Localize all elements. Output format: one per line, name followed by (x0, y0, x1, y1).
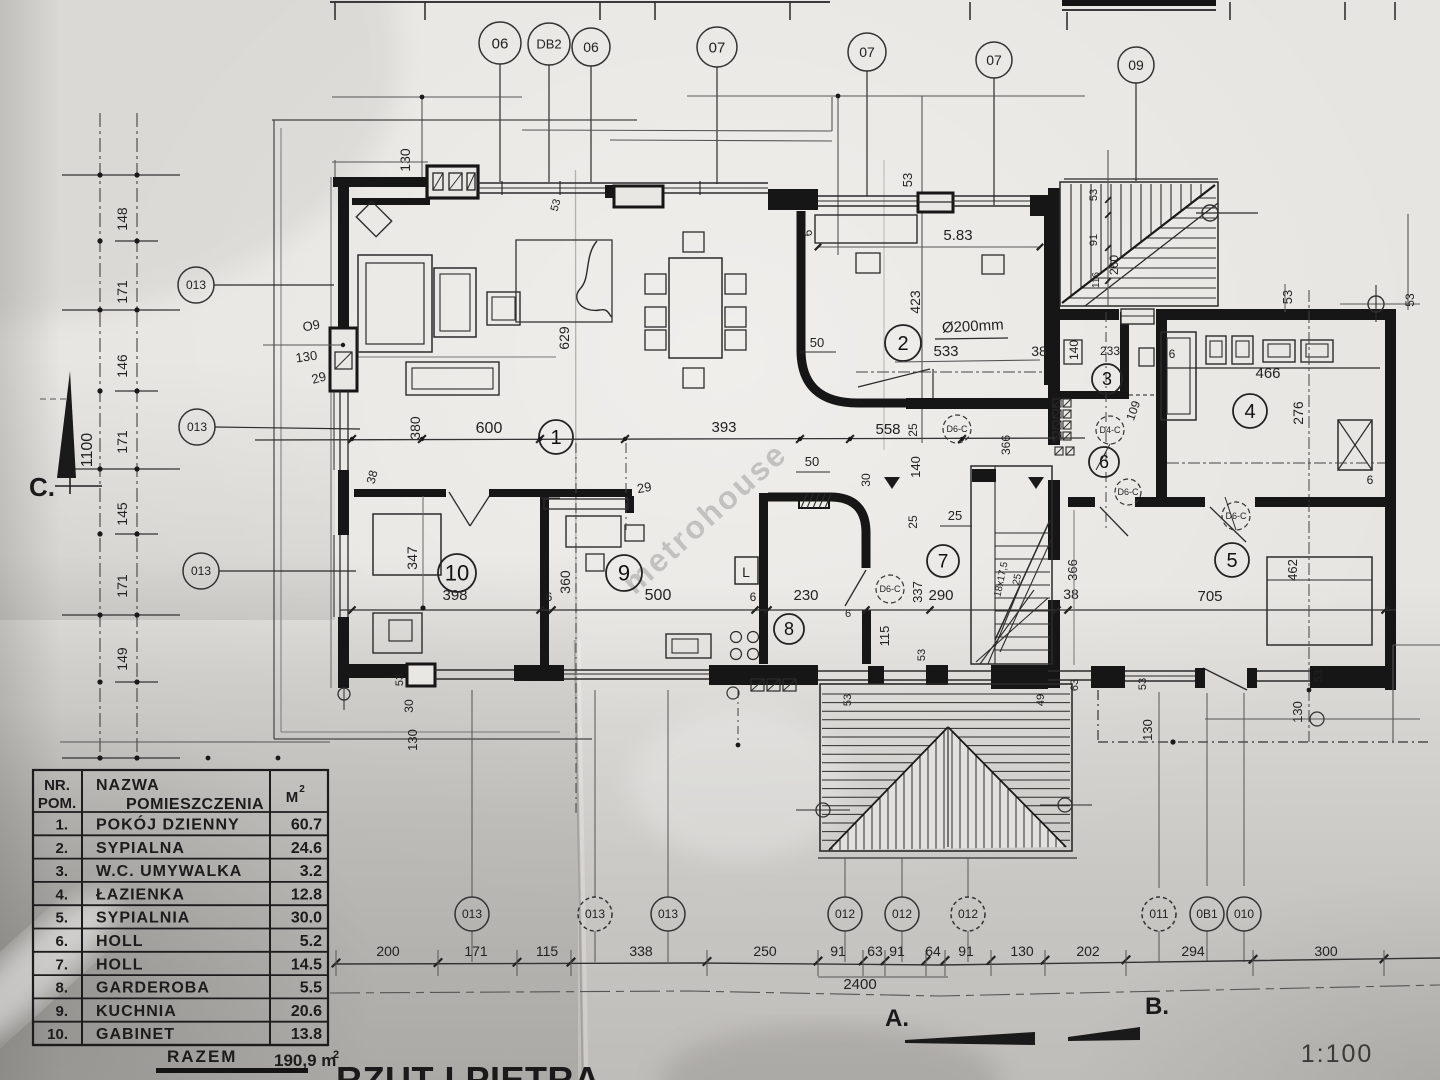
room5 door leaf 1 (1100, 507, 1128, 536)
svg-text:63: 63 (867, 943, 883, 959)
svg-text:2.: 2. (55, 840, 68, 857)
svg-text:200: 200 (376, 943, 400, 959)
reference circle 07c top (976, 42, 1012, 78)
room5 bottom wall right chunk (1310, 666, 1396, 688)
svg-text:600: 600 (476, 420, 503, 437)
table row 10. GABINET (33, 1021, 328, 1023)
room2 top center window block (918, 193, 953, 212)
reference circle 013 bottom x472 (455, 897, 489, 931)
room10 desk (373, 514, 441, 575)
svg-text:276: 276 (1290, 401, 1306, 425)
svg-text:8: 8 (784, 619, 794, 639)
svg-text:115: 115 (536, 943, 559, 959)
bottom wall chunk 2 (514, 665, 564, 681)
svg-text:25: 25 (906, 423, 920, 437)
svg-text:146: 146 (114, 354, 130, 378)
dashed circle D6-C room5 (1222, 502, 1250, 530)
terrace survey circle right (1058, 798, 1072, 812)
inner wall below top-left (352, 198, 430, 205)
svg-text:53: 53 (900, 173, 915, 187)
svg-text:91: 91 (889, 943, 905, 959)
room2 nightstand left (856, 253, 880, 273)
vertical guides below circles (471, 931, 473, 962)
svg-text:7: 7 (938, 551, 949, 572)
svg-text:RZUT I PIETRA: RZUT I PIETRA (336, 1059, 601, 1080)
room5 bottom window 1 (1125, 670, 1195, 672)
bottom wall chunk 5 (926, 665, 948, 685)
black triangle marker b (1028, 477, 1044, 489)
svg-text:558: 558 (875, 421, 900, 438)
svg-text:30: 30 (402, 699, 416, 713)
svg-text:6.: 6. (55, 933, 68, 950)
bottom wall window thin 3 (818, 670, 868, 672)
svg-text:91: 91 (830, 943, 846, 959)
room3 washbasin (1064, 340, 1082, 364)
room2 right wall (1044, 215, 1054, 385)
svg-text:010: 010 (1234, 907, 1254, 921)
svg-text:HOLL: HOLL (96, 933, 144, 950)
room circle 4 (1233, 394, 1267, 428)
svg-text:07: 07 (986, 52, 1002, 68)
door swing room10 (449, 492, 470, 526)
room8 wall below door (862, 610, 871, 664)
terrace roof vertical hatch (832, 720, 1064, 852)
svg-text:190,9 m: 190,9 m (274, 1051, 336, 1070)
svg-text:423: 423 (907, 290, 923, 314)
table row 1. POKÓJ DZIENNY (33, 811, 328, 813)
svg-text:171: 171 (114, 280, 130, 304)
terrace bottom guide line (818, 857, 1077, 859)
dashed circle D4-C hall (1096, 416, 1124, 444)
diamond decor top-left nook (356, 201, 391, 236)
north slope triangle (57, 371, 76, 478)
room2 top-right corner block (1030, 195, 1055, 216)
room9 small table below (586, 554, 604, 571)
svg-text:6: 6 (546, 590, 553, 604)
wire 06 to plan (499, 64, 501, 182)
room5 bottom window 2 (1257, 670, 1310, 672)
bottom-left corner shadow (0, 620, 560, 1080)
kitchen small survey circle (727, 687, 739, 699)
room circle 1 (539, 420, 573, 454)
svg-text:7.: 7. (55, 956, 68, 973)
svg-text:30.0: 30.0 (291, 910, 322, 927)
black triangle marker a (884, 477, 900, 489)
svg-text:53: 53 (1313, 670, 1325, 682)
staircase horizontal treads lower-right (1198, 197, 1216, 199)
leader 013 a (214, 284, 334, 286)
svg-text:64: 64 (925, 943, 941, 959)
table bottom line (33, 1044, 328, 1046)
room circle 7 (927, 545, 959, 577)
svg-text:2: 2 (299, 784, 305, 795)
room8 curved wall (768, 497, 866, 568)
leader line D4-C (1096, 444, 1110, 470)
svg-text:202: 202 (1076, 943, 1100, 959)
reference circle 013 left a (178, 267, 214, 303)
dark blotch bottom-center (660, 1025, 1000, 1080)
freeform cloud line in void (577, 241, 612, 317)
vertical guides to bottom circles (471, 690, 473, 897)
svg-text:M: M (286, 789, 299, 806)
staircase diagonal line secondary (1085, 203, 1218, 306)
svg-text:25: 25 (948, 508, 962, 523)
svg-text:338: 338 (629, 943, 653, 959)
svg-text:4.: 4. (55, 886, 68, 903)
svg-text:D6-C: D6-C (946, 424, 968, 434)
dining chair bottom (683, 368, 704, 388)
lower staircase winder steps (976, 598, 1048, 662)
svg-text:NR.: NR. (44, 777, 70, 794)
left chain crossbars (62, 174, 180, 176)
svg-text:SYPIALNA: SYPIALNA (96, 840, 185, 857)
interior wall room10 top right piece (489, 489, 632, 497)
room4 room5 divider wall (1068, 497, 1095, 507)
svg-text:398: 398 (442, 587, 467, 604)
vertical guide x=922 with 53 label (921, 96, 923, 443)
dashed circle D6-C near stairs (943, 415, 971, 443)
svg-text:140: 140 (1067, 340, 1081, 360)
svg-text:53: 53 (1137, 678, 1149, 690)
leader line D6-C room5 (1225, 497, 1236, 530)
svg-text:6: 6 (1367, 473, 1374, 487)
bottom wall big chunk 6 (991, 665, 1048, 689)
room8 left wall (759, 493, 768, 664)
svg-text:1: 1 (550, 427, 561, 449)
wire 07b to plan (866, 71, 868, 196)
svg-text:393: 393 (711, 419, 736, 436)
svg-text:347: 347 (404, 546, 420, 570)
svg-text:14.5: 14.5 (291, 956, 322, 973)
interior wall room10 top left piece (354, 489, 446, 497)
table row 5. SYPIALNIA (33, 904, 328, 906)
svg-text:NAZWA: NAZWA (96, 777, 160, 794)
svg-text:C.: C. (29, 472, 55, 502)
bottom-right corner shadow (980, 820, 1440, 1080)
bottom wall window block 53 (407, 664, 435, 686)
lower staircase landing wall piece (972, 469, 996, 482)
svg-text:30: 30 (859, 473, 873, 487)
wire 09 to plan (1135, 83, 1137, 181)
table row 3. W.C. UMYWALKA (33, 858, 328, 860)
white patch right of crease (630, 710, 850, 860)
lower staircase treads (995, 532, 1050, 534)
svg-text:A.: A. (885, 1005, 909, 1032)
right wing right outer wall (1385, 309, 1396, 690)
svg-text:250: 250 (753, 943, 777, 959)
bottom outer wall segments (338, 664, 426, 678)
svg-text:290: 290 (928, 587, 953, 604)
svg-text:500: 500 (645, 587, 672, 604)
table row 9. KUCHNIA (33, 997, 328, 999)
svg-text:50: 50 (810, 335, 824, 350)
reference circle 06b top (572, 28, 610, 66)
dining chair top (683, 232, 704, 252)
top edge tick marks (334, 2, 336, 20)
left wall window thin 1 (339, 391, 341, 470)
nook shelf line (352, 356, 556, 358)
svg-text:8.: 8. (55, 980, 68, 997)
svg-text:24.6: 24.6 (291, 840, 322, 857)
room3 room6 divider wall (1059, 391, 1129, 399)
svg-text:POM.: POM. (38, 795, 76, 812)
svg-text:53: 53 (842, 694, 854, 706)
svg-text:171: 171 (114, 430, 130, 454)
svg-text:130: 130 (397, 148, 413, 172)
top edge scan line left (330, 1, 830, 3)
reference circle 012 bottom x902 (885, 897, 919, 931)
lower staircase diagonal cut (995, 520, 1050, 640)
reference circle 07 top (697, 27, 737, 67)
svg-text:5.2: 5.2 (300, 933, 322, 950)
svg-text:130: 130 (295, 348, 319, 366)
wire 06b to plan (590, 66, 592, 182)
room4 fixtures row (1206, 336, 1226, 364)
bottom dimension chain (336, 958, 1440, 965)
staircase diagonal line main (1062, 185, 1215, 303)
reference circle 013 left b (179, 409, 215, 445)
window box in top ribbon (614, 186, 663, 207)
living room coffee table (487, 292, 520, 325)
svg-text:DB2: DB2 (536, 37, 561, 52)
bottom chain ticks (332, 959, 340, 967)
svg-text:53: 53 (1088, 189, 1100, 201)
terrace outline (820, 684, 1072, 851)
staircase vertical treads (1070, 184, 1072, 296)
eaves outline left inner line (280, 128, 282, 732)
svg-text:50: 50 (805, 454, 819, 469)
reference circle DB2 top (528, 23, 570, 65)
leader 013 b (215, 427, 360, 429)
svg-text:9: 9 (618, 560, 630, 585)
bottom wall big chunk 3 (709, 665, 818, 685)
reference circle 012 bottom x968 (951, 897, 985, 931)
svg-text:10: 10 (445, 560, 469, 585)
reference circle 011 bottom x1159 (1142, 897, 1176, 931)
svg-text:130: 130 (1140, 719, 1155, 741)
axis dashdot x626 (625, 443, 627, 530)
svg-text:6: 6 (750, 590, 757, 604)
svg-text:380: 380 (407, 416, 423, 440)
bottom wall window thin 2 (564, 669, 709, 671)
room4 crossed cupboard (1338, 420, 1372, 470)
room2 nightstand right (982, 255, 1004, 274)
dining chairs left (645, 274, 666, 294)
svg-text:013: 013 (187, 420, 207, 434)
chimney hatched block (799, 494, 829, 508)
svg-text:012: 012 (892, 907, 912, 921)
room2 top window thin right (953, 195, 1030, 197)
svg-text:300: 300 (1314, 943, 1338, 959)
dining table (669, 258, 722, 358)
svg-text:171: 171 (464, 943, 488, 959)
wire 07c to plan (993, 78, 995, 205)
table row 7. HOLL (33, 951, 328, 953)
svg-text:260: 260 (1107, 255, 1121, 275)
right survey circle at wing corner (1368, 296, 1384, 312)
svg-text:D6-C: D6-C (879, 584, 901, 594)
svg-text:60.7: 60.7 (291, 817, 322, 834)
room10 cabinet (373, 613, 422, 653)
outer wall top-left horizontal (333, 177, 430, 187)
survey circle below corner (338, 688, 350, 700)
stairs landing box (1121, 309, 1154, 324)
kitchen hatched squares below wall (751, 679, 764, 691)
reference circle 07b top (848, 33, 886, 71)
room5 bed (1267, 557, 1372, 645)
dim 583 line (818, 246, 1040, 248)
faint crease top half (883, 160, 885, 450)
eaves inner bottom line (281, 731, 560, 733)
dash-dot line room2 bottom (856, 371, 1043, 373)
bottom wall window thin 1 (435, 669, 514, 671)
svg-text:Ø200mm: Ø200mm (942, 316, 1004, 336)
svg-text:3.2: 3.2 (300, 863, 322, 880)
svg-text:2400: 2400 (843, 976, 876, 993)
reference circle 013 left c (183, 553, 219, 589)
gutter double lines above ribbon (522, 130, 832, 131)
svg-text:366: 366 (1065, 559, 1080, 581)
glare streak bottom-left (0, 876, 134, 1074)
svg-text:49: 49 (1035, 694, 1047, 706)
wall pier in top ribbon (605, 185, 614, 198)
svg-text:D4-C: D4-C (1099, 425, 1121, 435)
svg-text:130: 130 (1290, 701, 1305, 723)
svg-text:13.8: 13.8 (291, 1026, 322, 1043)
left outer wall mid segment (338, 470, 349, 535)
table row 8. GARDEROBA (33, 974, 328, 976)
terrace roof mask (829, 727, 1066, 850)
y610 ticks (348, 606, 355, 613)
room3 door dashed (1129, 394, 1157, 396)
svg-text:06: 06 (492, 35, 509, 52)
room9 small square right (625, 525, 644, 541)
room table frame (33, 770, 328, 1045)
svg-text:07: 07 (709, 39, 726, 56)
bottom wall window thin 5 (948, 670, 991, 672)
right wing top wall main (1156, 309, 1396, 320)
axis tick marks mid page (206, 756, 211, 761)
left dashdot vertical line a (99, 113, 101, 760)
svg-text:149: 149 (114, 647, 130, 671)
kitchen stove burners (731, 632, 742, 643)
living room sofa group (358, 255, 432, 352)
svg-text:171: 171 (114, 574, 130, 598)
svg-text:0B1: 0B1 (1196, 907, 1218, 921)
left outer wall upper segment (338, 177, 349, 328)
vertical fold line through plan (575, 170, 578, 645)
staircase dim line vertical (1107, 150, 1109, 306)
svg-text:29: 29 (636, 479, 653, 496)
room9 counter band (544, 499, 628, 509)
eaves outline left vertical (273, 120, 275, 739)
svg-text:B.: B. (1145, 993, 1169, 1020)
svg-text:53: 53 (1403, 293, 1417, 307)
hall axis dashdot x1106 (1105, 312, 1107, 528)
room circle 2 (885, 325, 921, 361)
eaves outline bottom (274, 738, 592, 740)
room circle 3 (1092, 364, 1122, 394)
top right black bar scan edge (1062, 0, 1216, 6)
svg-text:5: 5 (1226, 550, 1237, 572)
svg-text:20.6: 20.6 (291, 1003, 322, 1020)
axis dashdot x738 below wall (737, 690, 739, 745)
svg-text:SYPIALNIA: SYPIALNIA (96, 910, 190, 927)
room2 top wall left block (768, 189, 818, 210)
terrace horizontal decking lines (822, 693, 1070, 695)
svg-text:91: 91 (958, 943, 974, 959)
svg-text:GABINET: GABINET (96, 1026, 175, 1043)
dimension line y610 (340, 609, 1396, 611)
terrace roof hip edges (829, 727, 948, 850)
right edge guide lines (1407, 214, 1409, 310)
room2 top window thin left (818, 195, 918, 197)
table row 6. HOLL (33, 928, 328, 930)
svg-text:W.C. UMYWALKA: W.C. UMYWALKA (96, 863, 242, 880)
room9 table (566, 516, 621, 547)
room circle 9 (606, 555, 642, 591)
svg-text:013: 013 (186, 278, 206, 292)
dim line x423 room10 (422, 496, 424, 610)
svg-text:233: 233 (1100, 344, 1120, 358)
fold crease bottom vertical (575, 640, 583, 1080)
room5 wall face line (1073, 510, 1075, 665)
svg-text:013: 013 (658, 907, 678, 921)
reference circle 010 bottom x1244 (1227, 897, 1261, 931)
svg-text:294: 294 (1181, 943, 1205, 959)
reference circle 012 bottom x845 (828, 897, 862, 931)
svg-text:RAZEM: RAZEM (167, 1047, 237, 1066)
dashed circle D6-C divider (1115, 479, 1141, 505)
svg-text:POKÓJ DZIENNY: POKÓJ DZIENNY (96, 815, 240, 834)
svg-text:53: 53 (1280, 290, 1295, 304)
svg-text:705: 705 (1197, 588, 1222, 605)
svg-text:360: 360 (557, 570, 573, 594)
wire 07 to plan (716, 67, 718, 184)
outer face line along left wall (330, 177, 332, 688)
chain ticks (348, 435, 356, 443)
bottom wall thin right piece (1048, 670, 1091, 672)
room circle 8 (774, 614, 804, 644)
svg-text:6: 6 (1169, 347, 1176, 361)
guide line left wall 130 (263, 344, 343, 346)
table row 4. ŁAZIENKA (33, 881, 328, 883)
stairs block left thick wall (1048, 188, 1060, 445)
svg-text:1.: 1. (55, 817, 68, 834)
kitchen counter bottom (666, 634, 711, 658)
terrace survey circle left (816, 803, 830, 817)
svg-text:HOLL: HOLL (96, 956, 144, 973)
svg-text:013: 013 (191, 564, 211, 578)
room4 left wall (1156, 315, 1167, 507)
room5 bottom door diagonal (1203, 668, 1247, 690)
staircase top-right boundary (1060, 182, 1218, 306)
reference circle 013 bottom x668 (651, 897, 685, 931)
svg-text:148: 148 (114, 207, 130, 231)
svg-text:3.: 3. (55, 863, 68, 880)
top horizontal guide line right (687, 95, 1085, 97)
interior vertical wall rooms 10-9 (540, 490, 549, 667)
svg-text:5.: 5. (55, 910, 68, 927)
svg-text:38: 38 (1063, 586, 1079, 602)
svg-text:013: 013 (585, 907, 605, 921)
svg-text:53: 53 (916, 649, 928, 661)
wing dim dashdot vertical (1308, 290, 1310, 742)
svg-text:466: 466 (1255, 365, 1280, 382)
room4 shower stall (1161, 332, 1196, 420)
svg-text:12.8: 12.8 (291, 886, 322, 903)
svg-text:1:100: 1:100 (1301, 1040, 1374, 1068)
